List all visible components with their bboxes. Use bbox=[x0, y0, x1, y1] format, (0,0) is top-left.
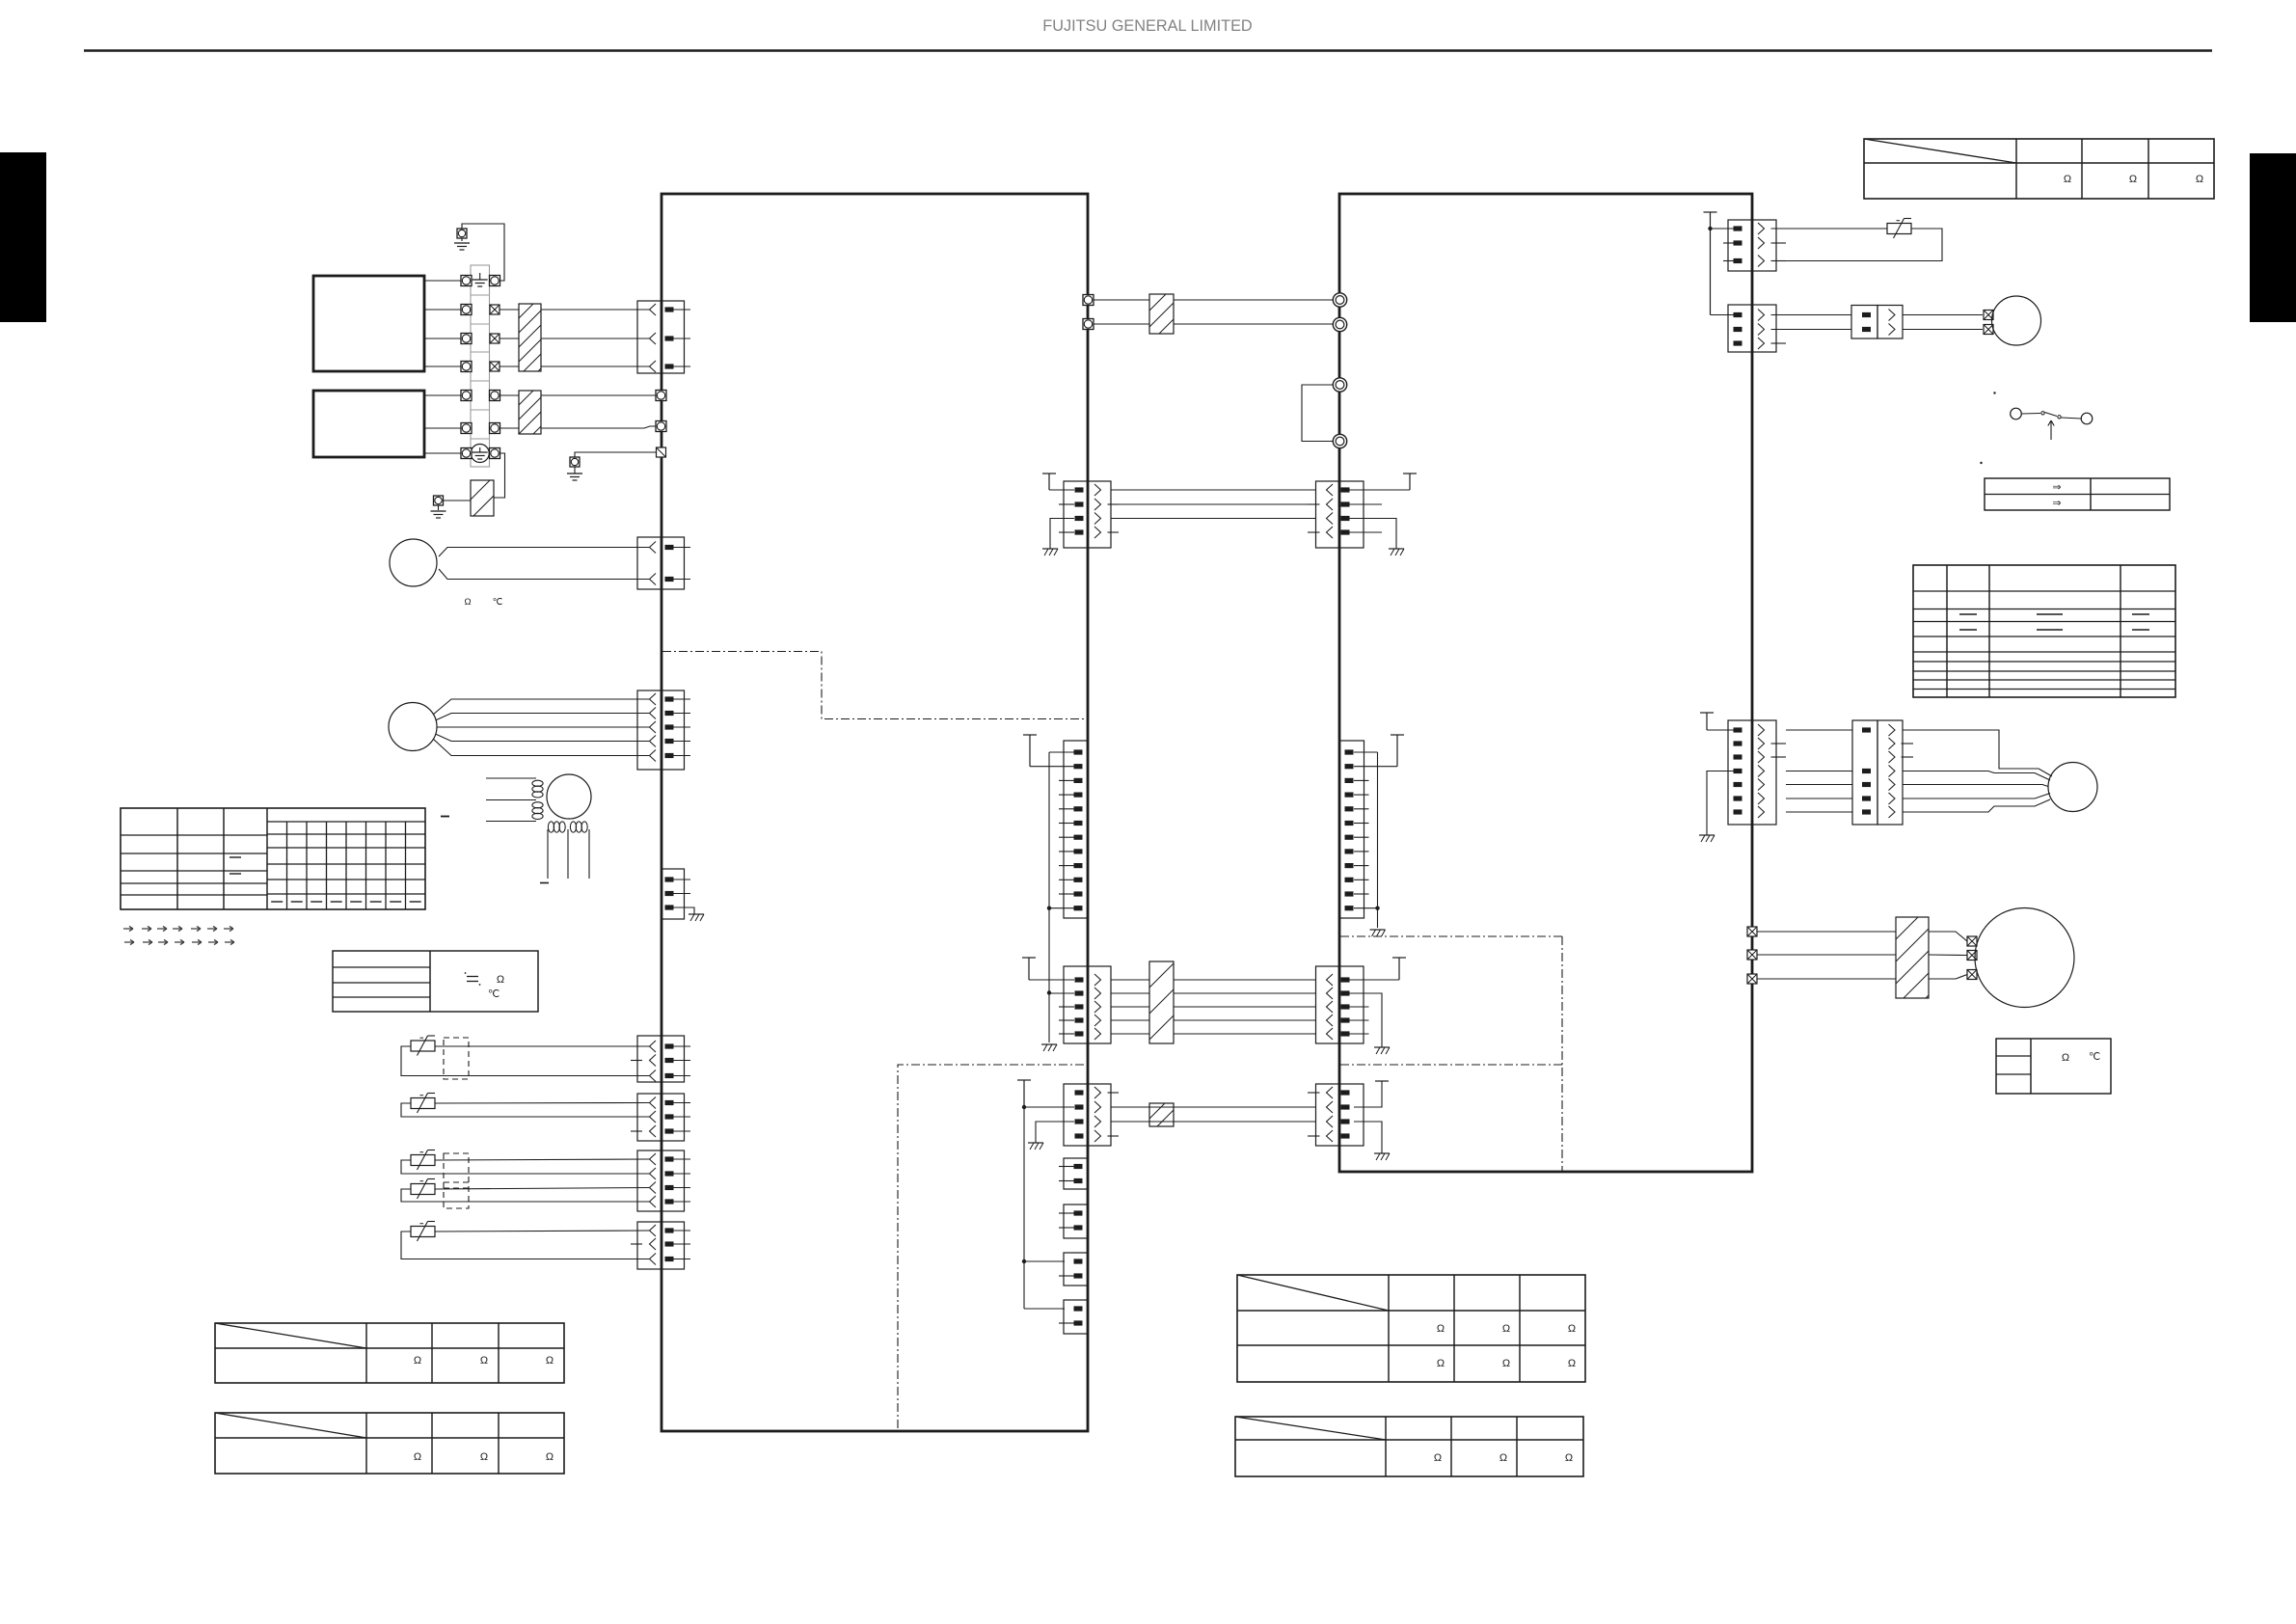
legend arrows row1 bbox=[123, 926, 133, 931]
noise filter hatched box B (2 lines) bbox=[519, 391, 541, 434]
resistance table B bottom-left bbox=[215, 1413, 564, 1474]
connector CN-g2 2-pin inside PCB1 bbox=[1064, 1204, 1088, 1238]
transformer secondary coil 2 bbox=[570, 822, 576, 832]
svg-text:FUJITSU GENERAL LIMITED: FUJITSU GENERAL LIMITED bbox=[1042, 17, 1252, 35]
discharge thermistor TH-R1 symbol bbox=[1887, 224, 1911, 234]
wires CN-R3 to fan2 connector bbox=[1786, 729, 1852, 731]
dash mark under transformer secondary bbox=[540, 882, 549, 884]
connector CN-c pair 4-pin PCB2 side bbox=[1316, 481, 1339, 548]
svg-text:Ω: Ω bbox=[1568, 1358, 1576, 1369]
transformer secondary coil 1 bbox=[548, 822, 554, 832]
svg-text:Ω: Ω bbox=[1499, 1452, 1507, 1464]
svg-text:℃: ℃ bbox=[493, 597, 503, 608]
earth terminal above terminal block bbox=[457, 229, 467, 238]
thermistor TH-A dashed option box bbox=[444, 1038, 469, 1079]
fan1 wire-to-wire connector 2-pin bbox=[1851, 306, 1877, 339]
CN-f2 right shield bracket bbox=[1354, 1081, 1382, 1107]
table middle-right dashes bbox=[1959, 613, 1977, 615]
wires TH1 to connector bbox=[439, 548, 650, 557]
CN-e left shield bracket bbox=[1029, 979, 1074, 981]
CN-c right ground bbox=[1350, 519, 1397, 550]
compressor wires right of filter bbox=[1929, 932, 1967, 941]
PCB1 diagonal terminal (earth) on edge bbox=[657, 447, 666, 457]
connector CN-f2 4-pin PCB2 side bbox=[1316, 1084, 1339, 1146]
table small arrows right bbox=[1985, 478, 2170, 510]
wires terminal block to filter A to CN power bbox=[500, 309, 520, 311]
transformer core circle bbox=[547, 774, 591, 819]
svg-text:Ω: Ω bbox=[2129, 174, 2137, 185]
svg-text:Ω: Ω bbox=[1437, 1358, 1445, 1369]
noise filter hatched box between CN-f pair bbox=[1149, 1103, 1174, 1126]
thermistor bulb TH1 circle bbox=[390, 539, 437, 586]
dash-dot partition line inside PCB1 upper bbox=[662, 652, 1084, 719]
connector CN-d 12-pin on PCB1 right edge bbox=[1064, 741, 1088, 918]
connector CN-f 4-pin PCB1 side bbox=[1064, 1084, 1088, 1146]
svg-text:Ω: Ω bbox=[480, 1451, 488, 1463]
table middle-right spec bbox=[1913, 565, 2175, 697]
thermistor TH-C2 wires bbox=[435, 1188, 650, 1190]
switch SW circle A bbox=[2011, 408, 2022, 420]
connector CN-g1 2-pin inside PCB1 bbox=[1064, 1158, 1088, 1189]
svg-text:Ω: Ω bbox=[1434, 1452, 1442, 1464]
svg-text:Ω: Ω bbox=[1568, 1323, 1576, 1335]
ground at CN-I bbox=[690, 907, 694, 914]
terminal block right-side terminals bbox=[490, 276, 500, 286]
CN-d left shield bracket bbox=[1023, 734, 1037, 736]
thermistor TH-B wires bbox=[435, 1102, 650, 1105]
thermistor TH-D wires bbox=[435, 1231, 650, 1232]
wire earth loop to terminal row1 bbox=[462, 224, 504, 281]
jumper U wire bbox=[1302, 385, 1333, 442]
transformer primary coils bbox=[532, 780, 543, 786]
wire hatched box C to earth terminal bbox=[444, 500, 471, 501]
CN-e right stubs bbox=[1350, 1006, 1369, 1008]
connector CN TH-A 3-pin bbox=[637, 1036, 662, 1082]
fan motor 1 crimp terminals bbox=[1984, 311, 1993, 320]
CN-c right pin2 stub bbox=[1350, 503, 1383, 505]
thermistor TH-C dashed option box bbox=[444, 1153, 469, 1208]
CN-d2 right shield bracket bbox=[1391, 734, 1404, 736]
earth terminal bottom-left with ground bbox=[434, 496, 444, 505]
connector CN-e 5-pin PCB1 side bbox=[1064, 966, 1088, 1043]
connector CN-d2 12-pin on PCB2 left edge bbox=[1340, 741, 1364, 918]
CN-R2 wires to fan connector bbox=[1771, 314, 1852, 316]
dash-dot partition lines inside PCB2 bbox=[1340, 935, 1562, 937]
thermistor TH-C1 wires bbox=[435, 1159, 650, 1160]
compressor wires left of filter bbox=[1757, 931, 1896, 933]
svg-text:℃: ℃ bbox=[2089, 1051, 2100, 1063]
svg-text:℃: ℃ bbox=[488, 988, 500, 1000]
noise filter hatched box A (3 lines) bbox=[519, 304, 541, 371]
table bottom-middle resistance 1 bbox=[1237, 1275, 1585, 1382]
table bottom-middle resistance 2 bbox=[1235, 1417, 1583, 1476]
PCB2 inverter PCB outline bbox=[1339, 194, 1752, 1172]
connector CN TH-B 3-pin bbox=[637, 1094, 662, 1141]
connector CN TH-C 4-pin bbox=[637, 1150, 662, 1211]
CN-d2 right wiring bus bbox=[1354, 751, 1378, 753]
resistance table A bottom-left bbox=[215, 1323, 564, 1383]
wire terminal row7 to hatched box C bbox=[494, 453, 505, 498]
fan1 wires to motor terminals bbox=[1903, 314, 1983, 316]
CN-c right pin4 stub bbox=[1350, 531, 1383, 533]
fan2 wire-to-wire connector 7-pin bbox=[1852, 720, 1877, 825]
CN-R1 shield bracket inside bbox=[1704, 211, 1717, 213]
thermistor TH-C2 symbol bbox=[411, 1184, 435, 1195]
wires power box2 to terminal block bbox=[424, 394, 461, 396]
thermistor TH-B symbol bbox=[411, 1098, 435, 1109]
CN-R3 ground bbox=[1707, 771, 1734, 836]
svg-text:Ω: Ω bbox=[1437, 1323, 1445, 1335]
compressor terminals on PCB2 right edge bbox=[1747, 927, 1757, 936]
TH-R1 loop wires bbox=[1771, 228, 1888, 230]
svg-text:Ω: Ω bbox=[2064, 174, 2071, 185]
connector CN TH-D 3-pin bbox=[637, 1222, 662, 1269]
fan motor 1 circle bbox=[1992, 296, 2041, 345]
CN-f2 right ground bbox=[1354, 1122, 1382, 1153]
connector CN power 3-pin on PCB1 left edge bbox=[637, 301, 662, 373]
svg-text:⇒: ⇒ bbox=[2052, 498, 2061, 509]
CN-d2 bus ground bbox=[1370, 929, 1386, 931]
CN-e left stubs bbox=[1059, 1006, 1074, 1008]
switch SW arrow bbox=[2048, 420, 2054, 440]
left index tab bbox=[0, 152, 46, 322]
fan motor 2 circle bbox=[2048, 763, 2097, 812]
PCB1 outdoor main PCB outline bbox=[662, 194, 1088, 1431]
CN-f interconnect wires bbox=[1111, 1106, 1316, 1108]
connector CN-g3 2-pin inside PCB1 bbox=[1064, 1253, 1088, 1286]
thermistor TH-A symbol bbox=[411, 1041, 435, 1051]
7-pin connector CN-R3 PCB2 right edge bbox=[1728, 720, 1752, 825]
connector CN-e2 5-pin PCB2 side bbox=[1316, 966, 1339, 1043]
outdoor fan motor circle bbox=[389, 703, 437, 751]
power source box 1 bbox=[313, 276, 424, 371]
left parts table bottom row dashes bbox=[271, 901, 283, 903]
round terminals on PCB2 left edge (AC in) bbox=[1333, 293, 1346, 307]
svg-text:Ω: Ω bbox=[414, 1355, 421, 1367]
svg-text:Ω: Ω bbox=[2062, 1052, 2069, 1064]
switch SW lever and contacts bbox=[2022, 413, 2041, 416]
dash mark right of left table bbox=[441, 816, 449, 818]
CN-e right ground drop bbox=[1350, 993, 1383, 1047]
CN-e interconnect wires bbox=[1111, 979, 1149, 981]
CN-R3 shield bracket bbox=[1700, 712, 1714, 714]
PCB1 tab terminal L2 bbox=[656, 421, 666, 432]
stray mark near switch lower bbox=[1980, 462, 1982, 464]
switch SW circle B bbox=[2081, 413, 2093, 424]
AC tab terminals on PCB1 right edge bbox=[1083, 295, 1094, 306]
wires AC link right bbox=[1174, 299, 1333, 301]
header rule bbox=[84, 49, 2212, 51]
terminal block PE circle bottom cell bbox=[471, 445, 489, 463]
CN-d left wiring bus bbox=[1049, 751, 1074, 753]
CN-c left shield bracket bbox=[1049, 489, 1074, 491]
svg-text:Ω: Ω bbox=[1502, 1358, 1510, 1369]
svg-text:Ω: Ω bbox=[1565, 1452, 1573, 1464]
stray mark near switch upper bbox=[1993, 392, 1995, 393]
CN-f left ground bbox=[1036, 1122, 1074, 1143]
CN-c left ground bbox=[1050, 519, 1074, 550]
connector CN-g4 2-pin inside PCB1 bbox=[1064, 1300, 1088, 1334]
PCB1 tab terminal L1 bbox=[656, 391, 666, 401]
CN-f left bus and bracket bbox=[1017, 1079, 1031, 1081]
svg-text:Ω: Ω bbox=[464, 597, 471, 608]
svg-text:Ω: Ω bbox=[1502, 1323, 1510, 1335]
CN-c interconnect wires bbox=[1111, 489, 1316, 491]
transformer primary stub wires bbox=[486, 777, 536, 779]
svg-text:Ω: Ω bbox=[480, 1355, 488, 1367]
wires AC link left bbox=[1094, 299, 1149, 301]
left parts table col3 dashes bbox=[230, 856, 241, 858]
connector CN TH1 2-pin on PCB1 left edge bbox=[637, 537, 662, 589]
CN-e right shield bracket bbox=[1350, 979, 1400, 981]
left legend table bbox=[333, 951, 538, 1012]
right index tab bbox=[2250, 153, 2296, 322]
CN-e left bus tap bbox=[1049, 992, 1074, 994]
noise filter hatched box C bbox=[471, 480, 494, 516]
table top-right resistance bbox=[1864, 139, 2214, 199]
CN-d left bus ground bbox=[1041, 1043, 1057, 1045]
thermistor TH-A wires bbox=[435, 1045, 650, 1047]
terminal block left-side terminals bbox=[461, 276, 472, 286]
earth terminal mid with ground bbox=[570, 457, 580, 467]
round terminals jumper on PCB2 left edge bbox=[1333, 378, 1346, 392]
left legend table symbols bbox=[467, 976, 478, 978]
thermistor TH-D symbol bbox=[411, 1227, 435, 1237]
svg-text:Ω: Ω bbox=[497, 974, 504, 986]
earth wire from PCB edge diagonal terminal bbox=[575, 452, 656, 457]
connector CN-c pair 4-pin PCB1 side bbox=[1064, 481, 1088, 548]
terminal block TB outline bbox=[471, 265, 490, 467]
fan motor wires fanout bbox=[433, 699, 650, 715]
CN-c left pin4 stub bbox=[1059, 531, 1074, 533]
terminal block earth mark top cell bbox=[479, 273, 481, 280]
compressor noise filter hatched box bbox=[1896, 917, 1929, 998]
svg-text:Ω: Ω bbox=[414, 1451, 421, 1463]
compressor crimp terminals bbox=[1967, 936, 1977, 946]
transformer secondary legs bbox=[547, 829, 549, 879]
power source box 2 bbox=[313, 391, 424, 457]
noise filter hatched box between CN-e pair bbox=[1149, 961, 1174, 1043]
svg-text:⇒: ⇒ bbox=[2052, 482, 2061, 494]
noise filter hatched box AC link bbox=[1149, 294, 1174, 334]
CN-c right shield bracket bbox=[1350, 489, 1411, 491]
wires power box1 to terminal block bbox=[424, 280, 461, 282]
connector CN-R1 3-pin PCB2 right edge bbox=[1728, 220, 1752, 271]
table legend right (ohm degC) bbox=[1996, 1039, 2111, 1094]
svg-text:Ω: Ω bbox=[546, 1355, 554, 1367]
connector CN-R2 3-pin PCB2 right edge bbox=[1728, 305, 1752, 352]
connector CN-I 3-pin inside PCB1 bbox=[662, 869, 685, 919]
thermistor TH-C1 symbol bbox=[411, 1155, 435, 1166]
compressor motor circle bbox=[1975, 908, 2074, 1008]
svg-text:Ω: Ω bbox=[546, 1451, 554, 1463]
left parts table bbox=[121, 808, 425, 909]
CN-c left pin2 stub bbox=[1059, 503, 1074, 505]
connector CN fan 5-pin on PCB1 left edge bbox=[637, 690, 662, 770]
wires terminal block to filter B to PCB tabs bbox=[500, 394, 520, 396]
dash-dot partition line inside PCB1 lower bbox=[898, 1065, 1084, 1430]
svg-text:Ω: Ω bbox=[2196, 174, 2203, 185]
legend arrows row2 bbox=[124, 939, 134, 944]
fan motor 2 wires bbox=[1903, 730, 2052, 776]
